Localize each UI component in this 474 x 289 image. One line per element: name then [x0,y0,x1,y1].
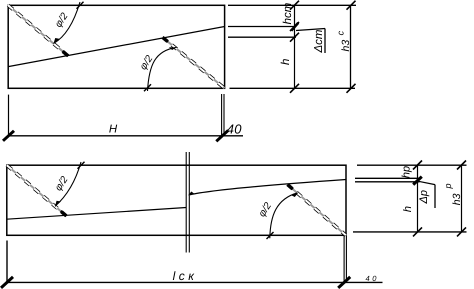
delta-st leader [296,29,325,31]
svg-text:40: 40 [227,121,243,136]
svg-text:H: H [109,123,118,135]
ticks lower dims [413,161,466,237]
svg-text:φ/2: φ/2 [53,11,71,30]
slope arrow at break [188,191,195,195]
dimension line 1 (h stack) [294,5,296,88]
tick lsk left [1,277,13,288]
probe beam B2 [288,185,346,236]
extension line h bottom (lower diagram) [353,231,467,233]
svg-text:hp: hp [401,166,413,178]
delta-p leader [419,181,436,184]
extension line delta-p lower [355,181,420,183]
delta-st shelf [324,29,326,54]
svg-text:Δcm: Δcm [313,29,325,53]
svg-text:h: h [280,59,292,65]
angle arc A2 [144,46,177,91]
svg-text:φ/2: φ/2 [138,53,156,72]
top rail section outline [8,5,224,88]
probe beam A2 [163,37,225,88]
extension line hst top [228,4,356,6]
arrow blob at delta-st [291,23,298,31]
top running-surface slope line [8,27,224,67]
extension line delta-st bottom [228,36,296,38]
bottom left slope line [7,208,186,220]
extension line hst bottom [228,26,296,28]
dimension line lsk [7,281,383,283]
svg-text:h: h [402,206,414,212]
dimension line H [9,135,244,137]
break line pair [186,152,189,253]
svg-text:hcm: hcm [282,2,294,24]
probe beam B1 [7,165,67,216]
extension line hp top [357,164,467,166]
svg-text:c: c [335,30,345,35]
probe beam A1 [8,5,68,56]
extension line delta-p upper [355,177,420,179]
svg-text:h3: h3 [340,40,352,52]
dimension line 1 (lower) [417,165,419,232]
dimension line 2 (h3 c) [350,5,352,88]
tick lsk right [338,277,350,288]
svg-text:φ/2: φ/2 [257,200,275,219]
H extension line left [8,95,10,136]
svg-text:lcк: lcк [173,269,198,283]
weld axis double line (top) [222,94,224,136]
ticks dim2 [347,1,356,93]
angle arc B1 [53,162,85,207]
lsk extension line left [6,241,8,283]
arrow blob at delta-p [413,177,422,185]
tick H left [3,131,14,141]
extension line h bottom [230,87,356,89]
tick H right [216,130,228,141]
dimension line 2 (lower) [461,165,463,232]
bottom rail outline [7,165,346,235]
angle arc A1 [52,2,84,44]
svg-text:p: p [443,183,453,189]
ticks dim1 [290,1,299,93]
svg-text:h3: h3 [451,193,463,205]
svg-text:Δp: Δp [418,190,430,205]
bottom right slope line [190,180,346,195]
delta-p shelf [434,185,436,208]
svg-text:40: 40 [366,274,380,283]
angle arc B2 [267,192,299,239]
weld axis double line (bottom) [344,235,346,282]
